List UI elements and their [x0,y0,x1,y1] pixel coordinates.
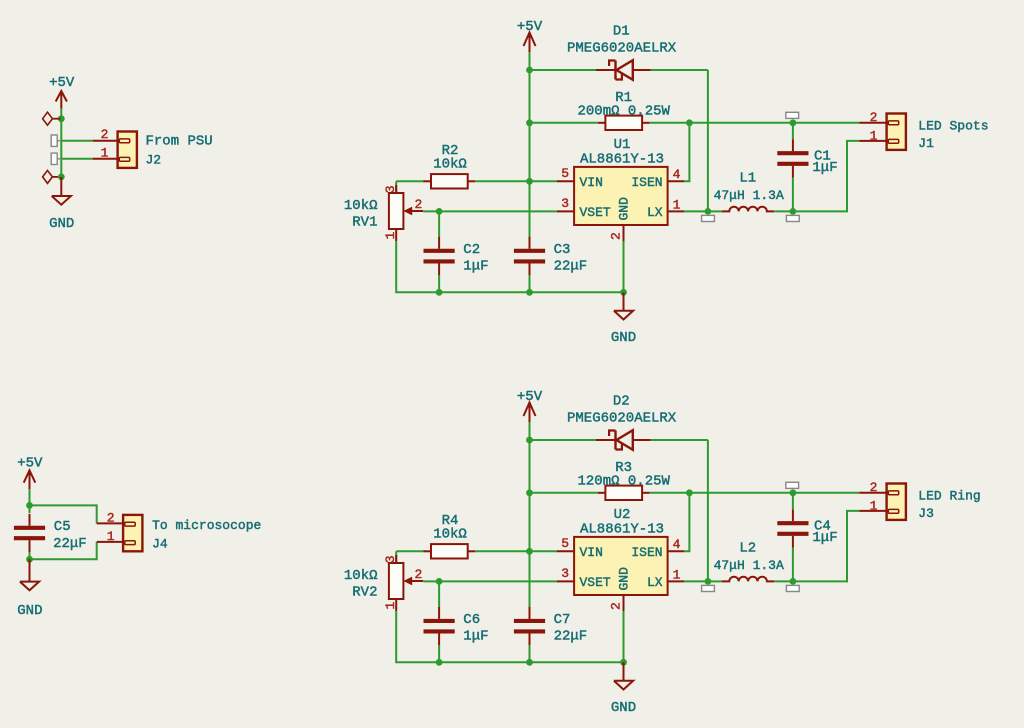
node +5V / C5 junction [26,502,33,509]
wire ISEN pin to sense node [684,493,689,552]
svg-text:2: 2 [609,232,624,240]
wire LX node to L1 [708,210,722,212]
net marker above C4 [786,482,799,488]
svg-text:22μF: 22μF [554,258,588,274]
svg-text:1μF: 1μF [463,258,488,274]
capacitor C6 [424,607,455,646]
svg-text:GND: GND [617,567,632,591]
svg-text:2: 2 [415,567,423,582]
svg-text:1: 1 [870,129,878,144]
wire +5V to R1 [530,122,598,124]
svg-text:4: 4 [673,167,681,182]
node ISEN sense junction [686,489,693,496]
svg-text:C6: C6 [463,612,480,628]
power +5V arrow (J2 group) [56,91,67,109]
node LX / L1 junction [705,208,712,215]
svg-text:GND: GND [17,603,42,619]
wire +5V to J4 pin 2 [30,505,97,523]
svg-text:1: 1 [383,602,398,610]
svg-text:1μF: 1μF [812,530,837,546]
wire +5V to D2 [530,439,598,441]
svg-text:VSET: VSET [580,575,611,590]
svg-text:LX: LX [647,575,663,590]
svg-text:1: 1 [107,529,115,544]
node ground rail / C7 [526,659,533,666]
wire C6 bottom lead [438,645,440,662]
svg-text:L1: L1 [739,170,756,186]
wire C2 top lead [438,211,440,237]
ground pin stub [623,292,625,311]
ground symbol (J4 group) [20,582,39,591]
inductor L2 [722,577,775,582]
node GND / C5 junction [26,556,33,563]
potentiometer RV2 [389,555,423,611]
svg-text:LX: LX [647,205,663,220]
svg-text:D2: D2 [613,393,630,409]
wire +5V rail vertical [529,422,531,606]
wire RV2 wiper to VSET [423,580,439,582]
U2 pin 1 LX lead [668,580,684,582]
svg-text:3: 3 [383,555,398,563]
J1 pin 2 lead [860,122,887,124]
ground symbol [614,311,633,320]
svg-text:1: 1 [383,232,398,240]
wire U2 GND pin to ground rail [623,611,625,662]
node +5V / R1 junction [526,119,533,126]
svg-text:D1: D1 [613,23,630,39]
wire output- to J3 pin 1 [793,511,860,582]
net marker under L1 pin 1 [702,215,715,221]
wire ISEN pin to sense node [684,123,689,182]
svg-text:VIN: VIN [580,545,603,560]
node VSET / C6 junction [436,578,443,585]
wire C1 top lead from output+ [792,123,794,139]
node +5V / D1 anode junction [526,67,533,74]
svg-text:J1: J1 [918,136,934,151]
J1 pin 1 lead [860,140,887,142]
ground pin stub (J2 group) [60,177,62,196]
U1 pin 4 ISEN lead [668,180,684,182]
U1 pin 3 VSET lead [557,210,574,212]
svg-text:PMEG6020AELRX: PMEG6020AELRX [567,40,677,56]
net marker under L2 pin 2 [786,585,799,591]
wire R2 to VIN [475,180,557,182]
node output+ / C4 junction [790,489,797,496]
wire L2 to output- node [775,580,793,582]
J2 pin 1 lead [93,158,118,160]
wire R3 to ISEN net / output+ [650,492,860,494]
U2 pin 4 ISEN lead [668,550,684,552]
node ground rail / GND [620,659,627,666]
svg-text:J3: J3 [918,506,934,521]
capacitor C5 [14,514,45,552]
svg-text:GND: GND [611,330,636,346]
svg-text:To microsocope: To microsocope [152,518,261,533]
svg-text:3: 3 [383,185,398,193]
wire GND to J2 pin 1 [61,158,92,160]
wire C4 top lead from output+ [792,493,794,509]
U1 pin 1 LX lead [668,210,684,212]
wire C2 bottom lead [438,275,440,292]
node LX / L2 junction [705,578,712,585]
wire LX pin to inductor node [684,210,708,212]
J4 pin 1 lead [97,541,123,543]
wire VSET [439,210,557,212]
svg-text:2: 2 [609,602,624,610]
U1 pin 2 GND lead [623,225,625,241]
net marker at J2 pin 1 wire [51,153,62,164]
svg-text:C5: C5 [54,519,71,535]
svg-text:C7: C7 [554,612,571,628]
svg-text:VIN: VIN [580,175,603,190]
net marker at J2 pin 2 wire [51,135,62,146]
wire output- to J1 pin 1 [793,141,860,212]
inductor L1 [722,207,775,212]
wire LX pin to inductor node [684,580,708,582]
connector J4 [123,515,142,551]
wire C5 bottom lead [29,552,31,559]
svg-text:LED Ring: LED Ring [918,488,980,503]
resistor R2 [424,174,476,188]
node VSET / C2 junction [436,208,443,215]
svg-text:5: 5 [561,536,569,551]
svg-text:5: 5 [561,166,569,181]
power +5V arrow (D2 circuit) [524,403,536,423]
wire GND to J4 pin 1 [30,542,97,559]
svg-text:AL8861Y-13: AL8861Y-13 [580,152,664,168]
svg-text:10kΩ: 10kΩ [344,568,378,584]
svg-text:3: 3 [561,566,569,581]
svg-text:VSET: VSET [580,205,611,220]
svg-text:GND: GND [617,197,632,221]
svg-text:+5V: +5V [49,75,75,91]
J4 pin 2 lead [97,522,123,524]
svg-text:L2: L2 [739,540,756,556]
wire +5V to R3 [530,492,598,494]
connector J2 [118,132,137,168]
node GND flag junction [58,174,65,181]
wire +5V to J2 pin 2 [61,140,92,142]
resistor R3 [598,486,650,500]
capacitor C4 [777,509,808,548]
wire +5V rail to C7 [529,551,531,607]
node ground rail / C2 [436,289,443,296]
power +5V arrow (J4 group) [24,470,36,489]
node L2 / C4 bottom junction [790,578,797,585]
ground symbol [614,681,633,690]
svg-text:2: 2 [870,110,878,125]
svg-text:LED Spots: LED Spots [918,118,988,133]
capacitor C1 [777,139,808,178]
svg-text:J4: J4 [152,537,168,552]
node +5V / D2 anode junction [526,437,533,444]
J2 pin 2 lead [93,140,118,142]
wire +5V down to C5 [29,489,31,513]
wire +5V rail (J2 group) [60,108,62,176]
wire RV2 pin3 riser [395,551,397,563]
PWR_FLAG diamond on GND [43,170,61,183]
svg-text:3: 3 [561,196,569,211]
power +5V arrow (D1 circuit) [524,33,536,53]
svg-text:From PSU: From PSU [146,134,213,150]
svg-text:4: 4 [673,537,681,552]
svg-text:AL8861Y-13: AL8861Y-13 [580,522,664,538]
wire C4 bottom lead [792,548,794,582]
wire D2 cathode-side to LX node [651,439,708,441]
svg-text:2: 2 [870,480,878,495]
svg-text:RV2: RV2 [352,584,377,600]
wire RV1 pin3 riser [395,181,397,193]
wire LX node vertical [707,70,709,211]
svg-text:ISEN: ISEN [631,175,662,190]
node output+ / C1 junction [790,119,797,126]
svg-text:PMEG6020AELRX: PMEG6020AELRX [567,410,677,426]
wire +5V rail to C3 [529,181,531,237]
ground symbol (J2 group) [52,196,71,205]
wire RV1 pin3 to R2 [396,180,424,182]
wire C1 bottom lead [792,178,794,212]
svg-text:10kΩ: 10kΩ [344,198,378,214]
wire +5V rail vertical [529,52,531,236]
wire L1 to output- node [775,210,793,212]
svg-text:1μF: 1μF [812,160,837,176]
svg-text:10kΩ: 10kΩ [433,157,467,173]
wire U1 GND pin to ground rail [623,241,625,292]
svg-text:22μF: 22μF [53,536,87,552]
svg-text:RV1: RV1 [352,214,377,230]
svg-text:1: 1 [673,568,681,583]
J3 pin 1 lead [860,510,887,512]
svg-text:ISEN: ISEN [631,545,662,560]
node L1 / C1 bottom junction [790,208,797,215]
resistor R4 [424,544,476,558]
svg-text:2: 2 [101,127,109,142]
svg-text:GND: GND [49,216,74,232]
svg-text:10kΩ: 10kΩ [433,527,467,543]
svg-text:1μF: 1μF [463,628,488,644]
svg-text:22μF: 22μF [554,628,588,644]
svg-text:+5V: +5V [17,456,43,472]
wire LX node to L2 [708,580,722,582]
node ISEN sense junction [686,119,693,126]
J3 pin 2 lead [860,492,887,494]
svg-text:J2: J2 [146,153,162,168]
wire +5V to D1 [530,69,598,71]
wire RV1 wiper to VSET [423,210,439,212]
U2 pin 5 VIN lead [557,550,574,552]
resistor R1 [598,116,650,130]
svg-text:C2: C2 [463,242,480,258]
svg-text:1: 1 [870,499,878,514]
capacitor C3 [514,237,545,276]
connector J3 [887,484,906,520]
capacitor C7 [514,607,545,646]
node +5V / VIN junction [526,548,533,555]
svg-text:1: 1 [673,198,681,213]
U1 pin 5 VIN lead [557,180,574,182]
wire RV2 pin3 to R4 [396,550,424,552]
svg-text:47μH 1.3A: 47μH 1.3A [714,188,784,203]
connector J1 [887,114,906,150]
wire R1 to ISEN net / output+ [650,122,860,124]
node +5V / VIN junction [526,178,533,185]
node +5V / R3 junction [526,489,533,496]
ground pin stub (J4 group) [29,559,31,581]
net marker above C1 [786,112,799,118]
wire C7 bottom lead [529,645,531,662]
IC U1 body [574,167,668,225]
IC U2 body [574,537,668,595]
diode D2 [596,430,651,450]
net marker under L2 pin 1 [702,585,715,591]
wire VSET [439,580,557,582]
wire LX node vertical [707,440,709,581]
wire D1 cathode-side to LX node [651,69,708,71]
svg-text:C3: C3 [554,242,571,258]
svg-text:2: 2 [415,197,423,212]
net marker under L1 pin 2 [786,215,799,221]
svg-text:GND: GND [611,700,636,716]
node ground rail / GND [620,289,627,296]
ground pin stub [623,662,625,681]
svg-text:2: 2 [107,511,115,526]
wire RV1 pin1 down to ground rail [396,241,623,292]
PWR_FLAG diamond on +5V [43,112,61,125]
U2 pin 3 VSET lead [557,580,574,582]
wire RV2 pin1 down to ground rail [396,611,623,662]
svg-text:1: 1 [101,146,109,161]
node +5V flag junction [58,115,65,122]
potentiometer RV1 [389,185,423,241]
wire R4 to VIN [475,550,557,552]
U2 pin 2 GND lead [623,595,625,611]
node ground rail / C6 [436,659,443,666]
wire C6 top lead [438,581,440,607]
capacitor C2 [424,237,455,276]
node ground rail / C3 [526,289,533,296]
wire C3 bottom lead [529,275,531,292]
svg-text:47μH 1.3A: 47μH 1.3A [714,558,784,573]
diode D1 [596,60,651,80]
